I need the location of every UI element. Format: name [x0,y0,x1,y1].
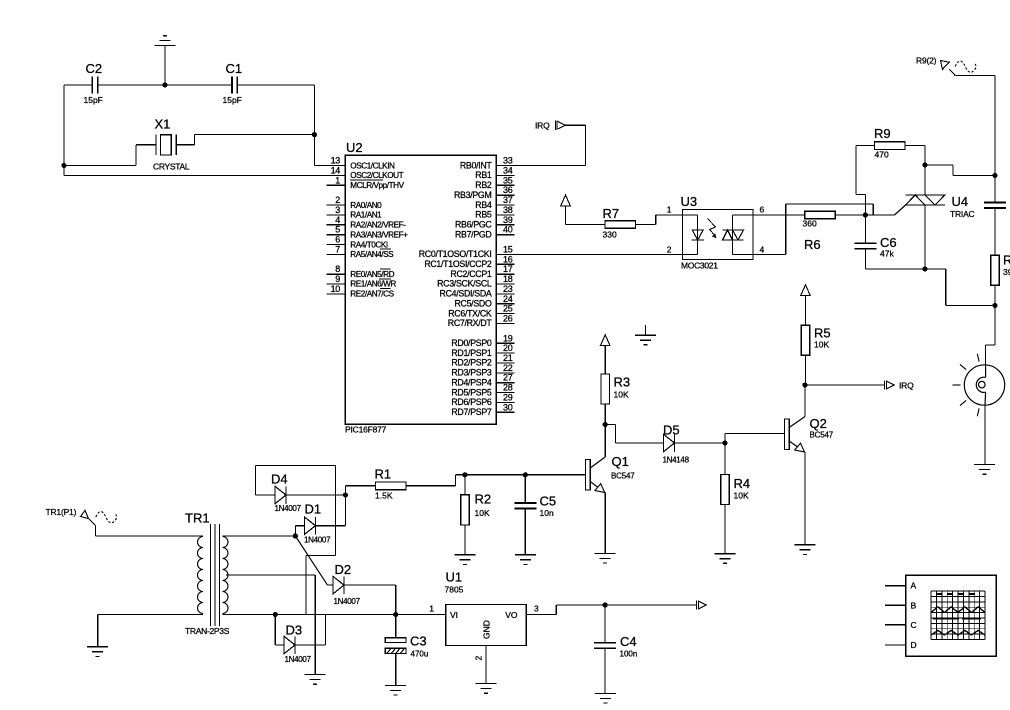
wire [724,434,726,444]
wire [872,204,874,215]
svg-text:U2: U2 [346,140,363,155]
svg-text:U1: U1 [446,570,463,585]
svg-text:RE0/AN5/RD: RE0/AN5/RD [350,270,394,279]
svg-text:RC5/SDO: RC5/SDO [454,299,491,309]
ground (R4) [715,554,736,564]
svg-text:X1: X1 [155,117,171,132]
svg-text:RB7/PGD: RB7/PGD [455,229,492,239]
ground (R2) [454,555,475,565]
pin 6 RA4/T0CKI [327,235,388,250]
ground (lamp) [974,465,995,475]
wire to cap [994,176,996,204]
pin 1 MCLR/Vpp/THV [327,175,405,190]
wire loop top [256,464,336,466]
wire lamp to ground [984,405,986,465]
svg-text:TR1(P1): TR1(P1) [46,507,77,517]
svg-text:330: 330 [603,230,617,240]
wire to IRQ terminal [805,384,884,386]
pin 22 RD3/PSP3 [451,363,514,378]
svg-text:OSC1/CLKIN: OSC1/CLKIN [350,161,395,170]
pin 27 RD4/PSP4 [451,373,514,388]
pin 14 OSC2/CLKOUT [327,166,404,181]
wire to pin 14 OSC2 [64,175,345,177]
capacitor (right rail) [984,203,1006,209]
pin 39 RB6/PGC [455,215,515,230]
svg-text:30: 30 [503,402,513,412]
resistor R5 [801,325,810,355]
capacitor C5 [514,503,536,509]
lamp rays [953,354,980,416]
wire collector [604,425,606,458]
pin 26 RC7/RX/DT [448,314,515,329]
svg-text:470u: 470u [411,650,429,659]
svg-text:MOC3021: MOC3021 [681,260,718,270]
transformer TR1 core [211,524,220,626]
wire D1 anode branch [294,526,296,536]
wire U3 pin4 [753,253,786,255]
op-amp U3 MOC3021 optocoupler [683,210,754,260]
matrix waveform marks [931,594,985,635]
pin 25 RC6/TX/CK [448,304,514,319]
junction C4 [603,602,608,607]
svg-text:1: 1 [667,205,672,215]
ground (floating earth) [635,335,656,345]
svg-text:RC2/CCP1: RC2/CCP1 [450,269,492,279]
svg-text:C3: C3 [410,634,427,649]
pin 7 RA5/AN4/SS [327,244,395,259]
resistor R9 [875,142,906,150]
svg-text:RB6/PGC: RB6/PGC [455,220,492,230]
wire [324,615,326,646]
pin 38 RB5 [475,205,514,220]
capacitor C6 [854,243,876,249]
svg-text:35: 35 [503,175,513,185]
wire into U3 pin1 [656,214,683,216]
overline SS [380,248,391,250]
svg-text:R5: R5 [814,326,831,341]
wire secondary bottom to U1 [223,614,446,616]
wire right rail upper [994,76,996,176]
wire [785,204,787,254]
pin 3 RA1/AN1 [327,205,383,220]
svg-text:U4: U4 [952,194,969,209]
wire R6 to node [835,214,865,216]
wire R1 right [406,485,456,487]
wire into lamp [985,345,987,365]
svg-text:RB5: RB5 [475,210,492,220]
wire to C6 [864,215,866,243]
pin 16 RC1/T1OSI/CCP2 [424,254,514,269]
wire loop right [335,465,337,555]
svg-text:RD0/PSP0: RD0/PSP0 [451,338,492,348]
wire from crystal right [176,144,194,146]
junction D3 branch [273,612,278,617]
svg-text:6: 6 [760,205,765,215]
svg-text:RC1/T1OSI/CCP2: RC1/T1OSI/CCP2 [424,259,492,269]
svg-text:R4: R4 [734,476,751,491]
power arrow (R5) [801,285,811,326]
svg-text:29: 29 [503,393,513,403]
ground (Q2) [795,545,816,555]
svg-text:D2: D2 [335,562,352,577]
wire secondary top [223,535,296,537]
svg-text:10K: 10K [734,491,749,501]
svg-text:RB0/INT: RB0/INT [460,160,493,170]
svg-text:14: 14 [331,166,341,176]
pin 33 RB0/INT [460,156,515,171]
pin 19 RD0/PSP0 [451,333,514,348]
wire to R1 [346,485,377,487]
pin 37 RB4 [475,195,514,210]
wire to D5 [616,442,664,444]
wire [952,165,954,176]
wire D2 cathode [344,584,396,586]
svg-text:RC0/T1OSO/T1CKI: RC0/T1OSO/T1CKI [419,249,492,259]
svg-text:R9(2): R9(2) [916,56,937,66]
svg-text:D1: D1 [305,502,322,517]
ground (C3) [385,685,406,695]
wire D4 anode [256,494,276,496]
junction Q1 collector [603,422,608,427]
svg-text:360: 360 [803,219,817,229]
svg-text:1N4148: 1N4148 [663,456,690,465]
svg-text:RB3/PGM: RB3/PGM [454,190,492,200]
wire R5 to node [805,355,807,385]
capacitor C2 [92,77,97,94]
wire jog [986,344,995,346]
wire crystal top branch [195,134,315,136]
svg-text:RD3/PSP3: RD3/PSP3 [451,368,492,378]
svg-text:17: 17 [503,264,513,274]
svg-text:RD1/PSP1: RD1/PSP1 [451,348,492,358]
svg-text:RD7/PSP7: RD7/PSP7 [451,407,492,417]
pin 40 RB7/PGD [455,225,515,240]
wire [856,194,865,196]
wire emitter to ground [604,493,606,554]
pin 29 RD6/PSP6 [451,393,514,408]
U3 internal triac wiring [733,215,754,254]
transistor Q2 BC547 [785,417,805,453]
svg-text:7: 7 [335,244,340,254]
svg-text:GND: GND [482,620,492,639]
ground (top, inverted) [155,36,176,46]
wire gate diagonal [895,205,906,215]
matrix display body [906,575,997,656]
op-amp U1 7805 regulator body [446,605,526,646]
wire tap to ground [314,575,316,675]
svg-text:C5: C5 [540,494,557,509]
svg-text:37: 37 [503,195,513,205]
wire primary top [95,535,203,537]
pin 18 RC3/SCK/SCL [437,274,514,289]
diode D3 1N4007 [284,636,295,654]
junction crystal bottom branch [61,163,66,168]
wire to crystal left [136,144,156,146]
wire C6 bottom [864,249,866,269]
svg-text:26: 26 [503,314,513,324]
pin 17 RC2/CCP1 [450,264,514,279]
pin 5 RA3/AN3/VREF+ [327,225,409,240]
resistor R1 [376,482,407,490]
wire right vertical [313,85,315,166]
junction C5 [523,472,528,477]
svg-text:1N4007: 1N4007 [334,597,361,606]
transistor U4 TRIAC [906,195,945,205]
wire diagonal [295,536,327,585]
svg-text:1: 1 [335,175,340,185]
overline RD [380,268,391,270]
svg-text:R9: R9 [874,126,891,141]
transformer TR1 primary coil [198,537,204,614]
matrix pin D [885,640,917,650]
svg-text:R1: R1 [375,467,392,482]
pin 8 RE0/AN5/RD [327,264,395,279]
wire to pin 13 OSC1 [314,165,345,167]
pin 20 RD1/PSP1 [451,343,514,358]
svg-text:38: 38 [503,205,513,215]
svg-text:3: 3 [534,604,539,614]
svg-text:R8: R8 [1003,253,1010,268]
svg-text:RB2: RB2 [475,180,492,190]
svg-text:1.5K: 1.5K [375,491,393,501]
svg-text:RB4: RB4 [475,200,492,210]
wire [345,495,347,526]
wire [555,605,557,615]
svg-text:23: 23 [503,284,513,294]
svg-text:RA4/T0CKI: RA4/T0CKI [350,240,388,249]
svg-text:R2: R2 [475,492,492,507]
svg-text:D5: D5 [663,423,680,438]
svg-text:10K: 10K [814,340,829,350]
wire R2 to ground [464,525,466,555]
wire to R4 [724,443,726,475]
matrix pin C [885,620,917,630]
wire left vertical [63,85,65,176]
wire to Q2 base [725,433,785,435]
svg-text:21: 21 [503,353,513,363]
ground (C5) [515,555,536,565]
wire [194,135,196,145]
svg-text:1N4007: 1N4007 [285,655,312,664]
wire to R7 [566,224,606,226]
wire [953,175,995,177]
wire [994,306,996,346]
overline WR [379,278,391,280]
svg-text:47k: 47k [880,249,894,259]
ground (Q1) [595,553,616,563]
junction D5/R4/Q2 [722,440,727,445]
wire secondary tap [226,574,315,576]
svg-text:8: 8 [335,264,340,274]
svg-text:MCLR/Vpp/THV: MCLR/Vpp/THV [350,181,404,190]
svg-text:24: 24 [503,294,513,304]
svg-text:RD4/PSP4: RD4/PSP4 [451,377,492,387]
wire [865,268,945,270]
svg-text:RC3/SCK/SCL: RC3/SCK/SCL [437,279,492,289]
svg-text:7805: 7805 [445,585,464,595]
sine squiggle TR1(P1) [96,512,117,523]
svg-text:34: 34 [503,166,513,176]
svg-text:33: 33 [503,156,513,166]
svg-text:39: 39 [1003,267,1010,277]
svg-text:RD2/PSP2: RD2/PSP2 [451,358,492,368]
wire [946,305,995,307]
pin 10 RE2/AN7/CS [327,284,395,299]
terminal TR1(P1) [81,510,96,525]
wire step [455,475,457,486]
pin 24 RC5/SDO [454,294,514,309]
wire crystal bottom [64,165,136,167]
wire [655,215,657,225]
U3 internal LED wiring [683,215,698,254]
diode D1 1N4007 [304,517,315,535]
svg-text:RD5/PSP5: RD5/PSP5 [451,387,492,397]
svg-text:3: 3 [335,205,340,215]
ground (U1) [476,684,497,694]
wire to R2 [464,475,466,495]
svg-text:PIC16F877: PIC16F877 [345,425,387,435]
junction R5/Q2/IRQ [802,382,807,387]
svg-text:RE2/AN7/CS: RE2/AN7/CS [350,290,394,299]
resistor R2 [461,495,470,525]
svg-text:D: D [911,640,917,650]
svg-text:10n: 10n [540,508,554,518]
pin 34 RB1 [475,166,514,181]
svg-text:VO: VO [505,610,518,620]
svg-text:D3: D3 [286,623,303,638]
svg-text:2: 2 [335,195,340,205]
junction R6/R9/C6/gate [863,212,868,217]
svg-text:BC547: BC547 [611,472,635,481]
svg-text:C4: C4 [620,634,637,649]
svg-text:TRIAC: TRIAC [950,209,975,219]
junction triac MT1 / C6 [922,266,927,271]
pin 36 RB3/PGM [454,185,515,200]
svg-text:40: 40 [503,225,513,235]
diode D2 1N4007 [333,576,344,594]
diode D5 1N4148 [664,434,675,452]
svg-text:Q2: Q2 [810,416,827,431]
svg-text:10K: 10K [475,508,490,518]
resistor R7 [605,221,636,229]
resistor R3 [601,374,610,404]
wire R8 bottom [994,285,996,305]
svg-text:RA0/AN0: RA0/AN0 [350,201,382,210]
wire R9 right [905,145,925,147]
pin 4 RA2/AN2/VREF- [327,215,407,230]
svg-text:22: 22 [503,363,513,373]
wire Q1 base [456,474,586,476]
wire Q2 collector [804,385,806,417]
pin 2 RA0/AN0 [327,195,383,210]
transformer TR1 secondary coil [223,537,229,614]
wire to output terminal [556,604,696,606]
svg-text:VI: VI [450,610,458,620]
svg-text:RA2/AN2/VREF-: RA2/AN2/VREF- [350,221,406,230]
wire U3 pin6 to R6 [753,214,805,216]
wire D3 cathode [295,644,325,646]
junction right rail bottom [992,303,997,308]
crystal X1 [156,135,176,155]
wire [135,145,137,166]
junction triac top [922,162,927,167]
U3 light arrow [708,219,717,239]
wire [275,644,284,646]
wire loop left [255,465,257,495]
pin 15 RC0/T1OSO/T1CKI [419,244,515,259]
wire earth stem [645,325,647,335]
svg-text:RD6/PSP6: RD6/PSP6 [451,397,492,407]
lamp [964,365,1004,405]
junction D4/D1/R1 [343,492,348,497]
wire [328,584,334,586]
svg-text:1: 1 [429,604,434,614]
wire gate segment [865,214,894,216]
svg-text:10: 10 [331,284,341,294]
wire Q2 emitter to ground [804,452,806,545]
wire [924,146,926,165]
wire [605,424,615,426]
wire [925,164,953,166]
wire pin33 to IRQ [496,165,585,167]
svg-text:5: 5 [335,225,340,235]
svg-text:1N4007: 1N4007 [275,504,302,513]
power arrow (R7) [561,195,571,225]
svg-text:100n: 100n [620,650,638,659]
svg-text:13: 13 [331,156,341,166]
wire loop jog [306,555,336,557]
wire from terminal [955,75,995,77]
svg-text:39: 39 [503,215,513,225]
overline MCLR [350,179,383,181]
wire R9 left [856,145,875,147]
sine squiggle R9(2) [955,61,976,72]
wire into node [864,195,866,216]
resistor R6 [805,211,836,219]
svg-text:RA1/AN1: RA1/AN1 [350,211,382,220]
svg-text:D4: D4 [271,472,288,487]
svg-text:R3: R3 [614,375,631,390]
wire [945,269,947,306]
U3 internal LED [692,230,705,240]
wire loop down [305,556,307,615]
svg-text:R6: R6 [804,237,821,252]
wire R7 to U3 [636,224,656,226]
svg-text:A: A [911,581,917,591]
wire D5 to node [675,442,726,444]
svg-text:28: 28 [503,383,513,393]
wire primary bottom [98,614,203,616]
svg-text:TRAN-2P3S: TRAN-2P3S [185,626,230,636]
svg-text:CRYSTAL: CRYSTAL [153,162,190,172]
wire [395,585,397,614]
junction R2 [462,472,467,477]
svg-text:4: 4 [760,245,765,255]
wire to R1 [345,486,347,495]
wire [615,425,617,444]
wire to C5 [524,475,526,503]
wire top rail left of C2 [64,84,92,86]
matrix grid [931,591,985,640]
svg-text:IRQ: IRQ [535,121,550,131]
U3 internal triac [723,230,744,240]
svg-text:1N4007: 1N4007 [304,536,331,545]
matrix pin B [885,600,917,610]
svg-text:27: 27 [503,373,513,383]
wire D3 branch [274,615,276,646]
svg-text:RC7/RX/DT: RC7/RX/DT [448,318,493,328]
wire C5 to ground [524,509,526,555]
